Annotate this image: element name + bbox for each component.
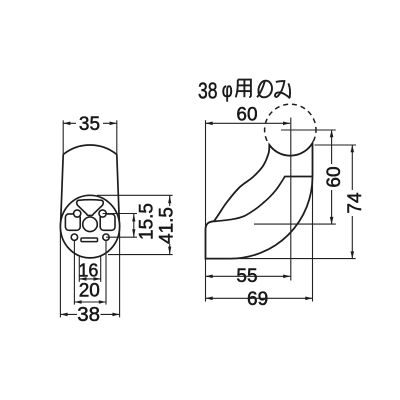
dimension 38 line [60, 313, 119, 315]
dimension 60 top arrows [206, 122, 213, 126]
body right side line [117, 155, 120, 228]
dimension 35 arrows [63, 122, 70, 126]
svg-text:41.5: 41.5 [156, 207, 177, 244]
dimension 38 text [77, 305, 101, 322]
dimension 60 right text [326, 164, 343, 190]
kanji YOU (use) hand drawn [236, 80, 251, 98]
svg-text:69: 69 [247, 289, 268, 310]
dimension 38 arrows [60, 313, 67, 317]
dimension 69 text [244, 290, 272, 307]
upper right hole [99, 210, 106, 217]
svg-text:60: 60 [236, 105, 257, 126]
svg-text:74: 74 [345, 192, 366, 214]
svg-text:38: 38 [77, 303, 100, 326]
pipe vertical centerline [290, 118, 292, 281]
dimension 41.5 line [169, 195, 171, 254]
flange circle [60, 195, 119, 258]
extension line right for dim 38 [119, 227, 121, 318]
dimension 60 right arrows [330, 130, 334, 137]
pipe horizontal centerline [281, 129, 336, 131]
dimension 74 line [351, 145, 353, 259]
dimension 60 right line [331, 130, 333, 224]
inner silhouette curve with shoulder [214, 177, 312, 222]
dimension 35 line [63, 122, 117, 124]
dimension 55 text [233, 266, 261, 283]
extension line bottom for dim 74 (bottom edge continued) [230, 258, 356, 260]
dimension 20 text [79, 283, 100, 298]
body left side line [61, 155, 64, 228]
bracket body [206, 143, 313, 259]
svg-text:38: 38 [198, 78, 218, 104]
extension line lower hole for dim 15.5 [106, 236, 137, 238]
svg-text:60: 60 [324, 166, 345, 187]
dimension 55 line [206, 275, 291, 277]
dimension 55 arrows [206, 275, 213, 279]
lower right hole [103, 234, 109, 240]
pipe dashed circle [265, 104, 316, 155]
extension line upper hole for dim 15.5 [103, 213, 137, 215]
kana MI hand drawn [275, 81, 290, 98]
svg-text:16: 16 [78, 260, 98, 280]
extension line left for dim 20 [73, 241, 75, 305]
kana NO hand drawn [257, 81, 272, 98]
dimension 74 arrows [351, 145, 355, 152]
right side slot [100, 214, 115, 230]
dimension 41.5 arrows [168, 195, 171, 203]
svg-text:15.5: 15.5 [137, 203, 158, 240]
svg-text:φ: φ [222, 79, 233, 102]
extension line top for dim 41.5 [97, 194, 173, 196]
center hole [83, 217, 98, 232]
extension line right for dim 20 [105, 241, 107, 305]
dimension 60 top line [206, 122, 291, 124]
dimension 20 line [74, 301, 106, 303]
extension line right for dim 16 [100, 256, 102, 282]
extension line left of dim 35 [62, 120, 64, 154]
dimension 35 text [76, 115, 103, 132]
svg-text:35: 35 [79, 114, 100, 135]
dimension 69 line [206, 297, 313, 299]
extension line left for dim 38 [59, 227, 61, 318]
lower left hole [71, 234, 77, 240]
svg-text:20: 20 [79, 280, 100, 301]
left side slot [65, 214, 80, 230]
bottom slot rectangle [81, 238, 98, 242]
extension line bottom for dim 41.5 [108, 254, 173, 256]
left long extension line [205, 120, 207, 301]
top arc slot on flange [77, 200, 104, 216]
extension line top for dim 74 [315, 144, 357, 146]
dimension 41.5 text [159, 206, 174, 244]
dimension 16 arrows [79, 277, 86, 281]
dimension 15.5 line [133, 214, 135, 238]
dimension 16 text [80, 263, 97, 278]
dimension 69 arrows [206, 297, 213, 301]
right long extension line [312, 145, 314, 302]
upper left hole [74, 210, 81, 217]
dimension 74 text [347, 190, 364, 216]
dimension 16 line [79, 278, 100, 280]
body dome arc [63, 145, 117, 155]
extension line left for dim 16 [78, 256, 80, 282]
dimension 20 arrows [74, 300, 81, 304]
extension line right of dim 35 [116, 120, 118, 154]
extension line bottom for dim 60 right [254, 223, 336, 225]
dimension 15.5 arrows [132, 214, 135, 222]
